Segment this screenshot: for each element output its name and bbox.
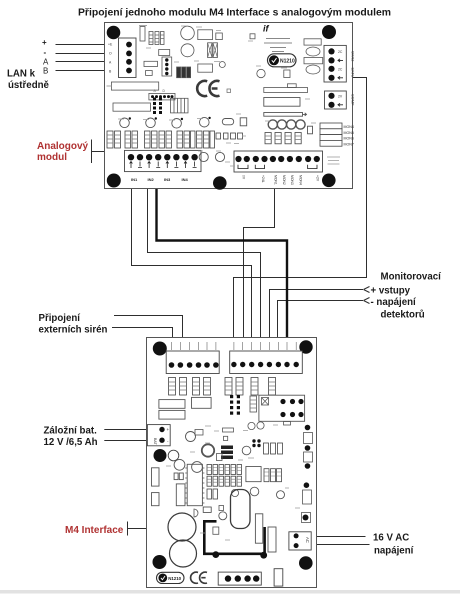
svg-text:+E: +E: [108, 43, 113, 47]
svg-text:napájení: napájení: [374, 545, 414, 556]
svg-text:+ vstupy: + vstupy: [371, 286, 411, 297]
svg-text:12 V /6,5 Ah: 12 V /6,5 Ah: [44, 437, 98, 448]
svg-text:MON4: MON4: [344, 125, 354, 129]
svg-text:IN3: IN3: [164, 177, 171, 182]
svg-text:16 V AC: 16 V AC: [373, 532, 409, 543]
svg-text:Analogový: Analogový: [37, 141, 89, 152]
svg-text:0V: 0V: [242, 175, 246, 180]
svg-text:- napájení: - napájení: [371, 297, 417, 308]
svg-text:OKR2: OKR2: [351, 51, 355, 61]
svg-text:MON6: MON6: [344, 137, 354, 141]
svg-text:2V: 2V: [338, 94, 343, 98]
svg-text:externích sirén: externích sirén: [39, 325, 108, 336]
svg-text:IN4: IN4: [182, 177, 189, 182]
svg-text:2C: 2C: [338, 67, 343, 71]
svg-text:Záložní bat.: Záložní bat.: [44, 426, 98, 437]
svg-text:BAT: BAT: [153, 438, 157, 446]
svg-text:IN2: IN2: [148, 177, 155, 182]
svg-text:A: A: [43, 58, 49, 67]
svg-text:MON7: MON7: [344, 142, 354, 146]
svg-text:Připojení: Připojení: [39, 313, 81, 324]
svg-text:+: +: [167, 427, 170, 432]
svg-text:MON5: MON5: [344, 131, 354, 135]
svg-text:O: O: [109, 52, 112, 56]
svg-text:+: +: [42, 38, 47, 47]
svg-text:M4 Interface: M4 Interface: [65, 525, 124, 536]
svg-text:detektorů: detektorů: [381, 310, 425, 321]
svg-text:LAN k: LAN k: [7, 69, 36, 80]
svg-text:modul: modul: [37, 152, 67, 163]
svg-text:MON2: MON2: [282, 175, 286, 185]
svg-text:AC: AC: [305, 537, 310, 543]
svg-text:COMP: COMP: [351, 94, 355, 106]
svg-text:N1210: N1210: [168, 576, 181, 581]
svg-text:+24L: +24L: [261, 175, 265, 183]
svg-text:Monitorovací: Monitorovací: [381, 272, 442, 283]
svg-text:B: B: [43, 67, 48, 76]
svg-text:Připojení jednoho modulu M4 In: Připojení jednoho modulu M4 Interface s …: [78, 8, 391, 19]
svg-text:+2V: +2V: [316, 175, 320, 182]
svg-text:N1210: N1210: [280, 59, 295, 65]
svg-text:IN1: IN1: [131, 177, 138, 182]
svg-text:MON3: MON3: [290, 175, 294, 185]
svg-text:2C: 2C: [338, 50, 343, 54]
svg-text:ústředně: ústředně: [8, 80, 50, 91]
svg-text:EXT1: EXT1: [351, 68, 355, 78]
svg-text:MON4: MON4: [298, 175, 302, 185]
svg-text:-: -: [44, 48, 47, 57]
svg-text:MON1: MON1: [274, 175, 278, 185]
